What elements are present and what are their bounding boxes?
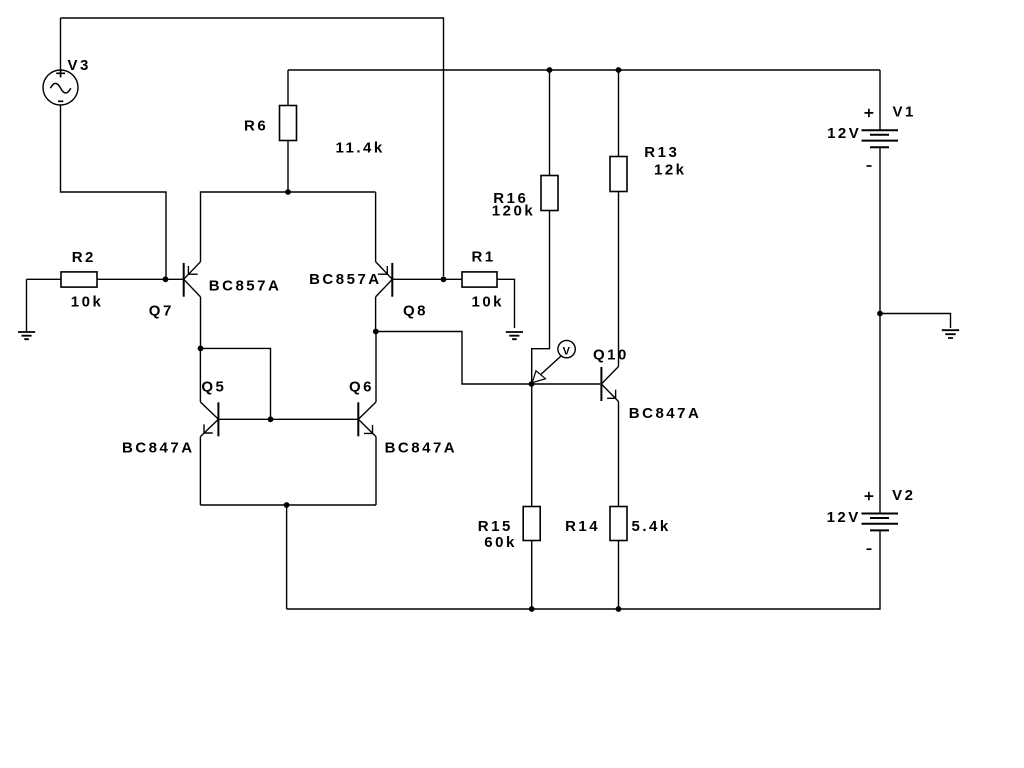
- label 60k (R15): [484, 534, 517, 551]
- node Q7 base junction: [163, 276, 169, 282]
- label BC847A (Q6): [385, 440, 458, 457]
- node emitter rail junction: [284, 502, 290, 508]
- svg-text:BC857A: BC857A: [309, 271, 382, 288]
- svg-text:Q6: Q6: [349, 379, 374, 396]
- wire mirror base tie: [201, 348, 271, 419]
- node mirror base junction: [268, 416, 274, 422]
- label R14: [565, 518, 600, 535]
- svg-text:R2: R2: [72, 249, 96, 266]
- svg-text:BC847A: BC847A: [122, 440, 195, 457]
- wire emitter rail Q5-Q6: [200, 504, 376, 506]
- svg-text:V2: V2: [892, 487, 915, 504]
- label R2: [72, 249, 96, 266]
- wire Q8 base to R1: [392, 278, 462, 280]
- label Q10: [593, 347, 629, 364]
- label R6: [244, 117, 268, 134]
- wire Q6 collector lead: [375, 332, 377, 403]
- svg-text:R6: R6: [244, 117, 268, 134]
- svg-text:R14: R14: [565, 518, 600, 535]
- label 10k (R1): [472, 293, 505, 310]
- wire Q8 emitter lead: [375, 192, 377, 262]
- svg-text:Q5: Q5: [201, 379, 226, 396]
- node Q7 collector junction: [198, 346, 204, 352]
- svg-text:R15: R15: [478, 518, 513, 535]
- label BC847A (Q10): [629, 405, 702, 422]
- label Q8: [403, 303, 428, 320]
- svg-text:V1: V1: [893, 104, 916, 121]
- resistor R1: [462, 272, 515, 328]
- svg-text:12k: 12k: [654, 161, 687, 178]
- resistor R16: [532, 70, 558, 384]
- transistor Q8 (PNP BC857A): [376, 262, 393, 297]
- svg-text:BC847A: BC847A: [629, 405, 702, 422]
- transistor Q10 (NPN BC847A): [601, 367, 618, 402]
- svg-text:12V: 12V: [827, 125, 861, 142]
- label V1: [893, 104, 916, 121]
- label Q7: [149, 303, 174, 320]
- resistor R6: [280, 70, 297, 192]
- wire top net V3+ to Q8 base: [61, 18, 444, 276]
- svg-text:11.4k: 11.4k: [336, 140, 385, 157]
- svg-text:10k: 10k: [472, 293, 505, 310]
- node Q8 collector junction: [373, 329, 379, 335]
- label R16: [493, 190, 528, 207]
- resistor R14: [610, 507, 627, 610]
- node R15 bottom junction: [529, 606, 535, 612]
- wire Q10 base: [532, 383, 602, 385]
- battery V1: [862, 70, 899, 166]
- svg-text:R1: R1: [472, 248, 496, 265]
- svg-text:Q8: Q8: [403, 303, 428, 320]
- transistor Q7 (PNP BC857A): [184, 262, 201, 297]
- label R15: [478, 518, 513, 535]
- resistor R15: [523, 384, 540, 609]
- node Q8 base junction: [441, 276, 447, 282]
- label Q5: [201, 379, 226, 396]
- node R16 top junction: [547, 67, 553, 73]
- svg-text:60k: 60k: [484, 534, 517, 551]
- label 12V (V2): [827, 509, 861, 526]
- label 12k (R13): [654, 161, 687, 178]
- label 120k (R16): [492, 203, 535, 220]
- label V2: [892, 487, 915, 504]
- svg-text:Q10: Q10: [593, 347, 629, 364]
- wire Q5 collector lead: [199, 348, 201, 402]
- label BC857A (Q7): [209, 278, 282, 295]
- label 5.4k (R14): [632, 518, 671, 535]
- label BC857A (Q8): [309, 271, 382, 288]
- node R14 bottom junction: [616, 606, 622, 612]
- battery V2: [862, 492, 899, 549]
- wire Q8 collector lead: [375, 297, 377, 332]
- label 12V (V1): [827, 125, 861, 142]
- svg-text:10k: 10k: [71, 293, 104, 310]
- svg-text:BC857A: BC857A: [209, 278, 282, 295]
- label R1: [472, 248, 496, 265]
- wire emitter rail to bottom rail: [286, 505, 288, 609]
- voltage probe V: [532, 340, 575, 382]
- svg-text:5.4k: 5.4k: [632, 518, 671, 535]
- svg-text:Q7: Q7: [149, 303, 174, 320]
- label BC847A (Q5): [122, 440, 195, 457]
- svg-text:V: V: [563, 345, 571, 357]
- svg-text:R13: R13: [644, 144, 679, 161]
- label 11.4k (R6): [336, 140, 385, 157]
- svg-text:120k: 120k: [492, 203, 535, 220]
- svg-text:12V: 12V: [827, 509, 861, 526]
- wire V1- to V2+: [879, 147, 881, 513]
- voltage source V3: [43, 18, 78, 105]
- wire V3- down to Q7 base node: [61, 105, 167, 279]
- resistor R13: [610, 70, 627, 367]
- ground at R2 left: [18, 279, 35, 339]
- svg-text:V3: V3: [68, 57, 91, 74]
- svg-text:BC847A: BC847A: [385, 440, 458, 457]
- ground at supply midpoint: [880, 314, 959, 339]
- wire Q10 emitter lead: [618, 402, 620, 507]
- node output junction: [529, 381, 535, 387]
- resistor R2: [27, 272, 184, 287]
- transistor Q5 (NPN BC847A): [200, 402, 218, 437]
- node mid supply junction: [877, 311, 883, 317]
- label V3: [68, 57, 91, 74]
- ground at R1: [506, 332, 523, 339]
- wire Q7 collector down: [200, 297, 202, 349]
- label 10k (R2): [71, 293, 104, 310]
- wire Q5 emitter lead: [199, 437, 201, 505]
- wire base rail Q5-Q6: [218, 418, 358, 420]
- wire Q6 emitter lead: [375, 437, 377, 505]
- node tail rail / R6 junction: [285, 189, 291, 195]
- wire Q8 collector to output node: [376, 332, 532, 385]
- wire Q7 emitter to tail rail: [201, 192, 376, 262]
- label R13: [644, 144, 679, 161]
- label Q6: [349, 379, 374, 396]
- transistor Q6 (NPN BC847A): [358, 402, 376, 437]
- wire +12V rail: [288, 69, 880, 71]
- node R13 top junction: [616, 67, 622, 73]
- wire bottom rail: [287, 531, 880, 610]
